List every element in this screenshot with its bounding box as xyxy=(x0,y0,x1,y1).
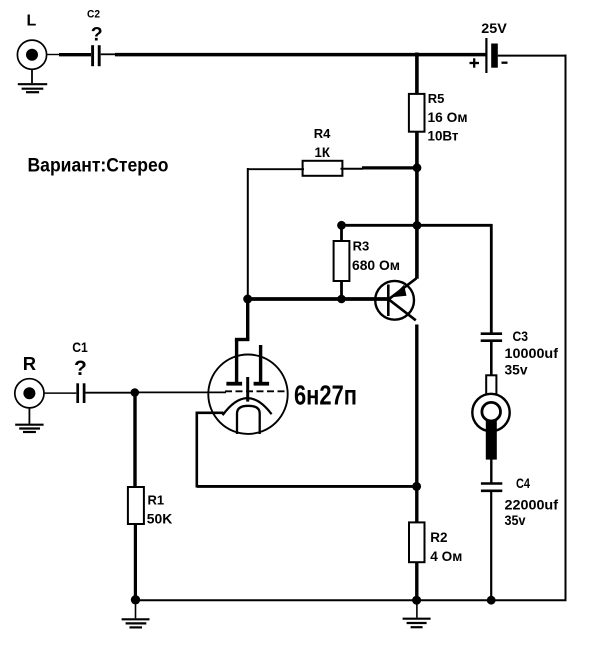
node (R1 / bottom rail) xyxy=(131,595,140,604)
resistor R3 xyxy=(334,239,400,282)
node (R3 bottom junction) xyxy=(337,295,346,304)
svg-text:R1: R1 xyxy=(148,493,165,508)
wire (R4 left branch down to grid node) xyxy=(247,168,249,299)
ground (L input) xyxy=(18,69,47,92)
svg-text:6н27п: 6н27п xyxy=(294,379,357,410)
resistor R2 xyxy=(409,522,462,564)
battery 25V xyxy=(470,20,508,73)
capacitor C1 xyxy=(72,340,88,403)
svg-text:10Вт: 10Вт xyxy=(428,128,459,143)
wire (right vertical rail) xyxy=(565,55,567,601)
svg-text:22000uf: 22000uf xyxy=(505,497,559,513)
wire (R jack to C1) xyxy=(44,392,77,394)
node (R3 top / C3 branch) xyxy=(413,221,422,230)
capacitor C4 xyxy=(481,475,558,528)
svg-text:35v: 35v xyxy=(505,362,528,378)
wire (R4 right lead to junction) xyxy=(341,168,364,170)
svg-text:680 Ом: 680 Ом xyxy=(352,258,400,273)
resistor R4 xyxy=(303,126,343,176)
wire (R4 left lead) xyxy=(247,168,304,170)
capacitor C2 xyxy=(87,9,103,67)
svg-text:?: ? xyxy=(91,24,103,46)
node (emitter / cathode junction) xyxy=(412,482,421,491)
wire (C3 to speaker) xyxy=(490,342,493,376)
wire (R3 top lead) xyxy=(340,225,343,241)
svg-text:R3: R3 xyxy=(353,239,370,254)
node (R3 top junction) xyxy=(337,221,346,230)
capacitor C3 xyxy=(481,328,559,378)
wire (bottom rail) xyxy=(136,599,567,601)
wire (R5 to collector, main vertical) xyxy=(415,132,419,279)
resistor R5 xyxy=(409,91,468,143)
svg-text:Вариант:Стерео: Вариант:Стерео xyxy=(28,155,169,177)
wire (L jack to C2) xyxy=(46,54,60,56)
wire (emitter down, main vertical) xyxy=(415,325,418,488)
wire (R2 bottom lead) xyxy=(415,562,418,601)
wire (base rail y=299) xyxy=(247,297,390,301)
node (R5/R4 junction) xyxy=(413,163,422,172)
svg-text:C4: C4 xyxy=(516,475,530,491)
RCA jack R xyxy=(15,353,44,408)
svg-text:R: R xyxy=(23,353,36,374)
svg-text:4 Ом: 4 Ом xyxy=(430,549,462,564)
wire (speaker to C4) xyxy=(490,459,492,483)
RCA jack L xyxy=(17,13,46,70)
node (C4 / bottom rail) xyxy=(487,596,496,605)
node (grid/anode junction) xyxy=(243,295,252,304)
wire (junction to C3 corner) xyxy=(342,224,493,227)
speaker / phone element xyxy=(472,375,509,459)
wire (top rail down to R5) xyxy=(415,53,419,95)
svg-text:?: ? xyxy=(74,357,87,380)
svg-text:R2: R2 xyxy=(430,530,447,545)
wire (cathode left + down + right to R2 node) xyxy=(196,412,417,488)
wire (C2 to battery, top rail) xyxy=(101,53,116,55)
svg-text:L: L xyxy=(27,13,37,30)
wire (R3 bottom lead) xyxy=(340,281,343,300)
transistor Q1 xyxy=(375,278,416,320)
svg-text:10000uf: 10000uf xyxy=(505,345,559,361)
wire (C1 to grid node) xyxy=(85,392,134,394)
wire (junction to tube grid) xyxy=(135,391,226,393)
ground (R input) xyxy=(15,408,43,432)
wire (C3 vertical drop) xyxy=(490,224,493,333)
svg-text:C2: C2 xyxy=(87,9,100,21)
resistor R1 xyxy=(128,487,173,527)
wire (junction down to R2) xyxy=(415,486,418,523)
svg-text:C1: C1 xyxy=(72,340,88,355)
wire (battery to right rail corner) xyxy=(498,55,567,57)
svg-text:25V: 25V xyxy=(481,20,507,36)
tube U1 6н27п xyxy=(208,355,357,435)
svg-text:R4: R4 xyxy=(314,126,331,141)
node (R2 / bottom rail) xyxy=(412,596,421,605)
wire (R1 bottom lead) xyxy=(134,524,137,601)
wire (right anode lead) xyxy=(259,345,262,383)
ground (bottom center) xyxy=(403,601,431,628)
svg-text:35v: 35v xyxy=(505,512,526,528)
svg-text:16 Ом: 16 Ом xyxy=(428,110,468,125)
ground (bottom left) xyxy=(122,600,150,627)
node (C1/R1 junction) xyxy=(131,388,140,397)
svg-text:C3: C3 xyxy=(513,328,529,344)
svg-text:1К: 1К xyxy=(315,145,331,160)
svg-text:50K: 50K xyxy=(147,512,173,527)
wire (anode step from grid node into tube) xyxy=(235,299,250,383)
wire (junction down to R1) xyxy=(133,393,136,488)
wire (C4 to bottom rail) xyxy=(490,492,492,600)
svg-text:R5: R5 xyxy=(428,91,445,106)
